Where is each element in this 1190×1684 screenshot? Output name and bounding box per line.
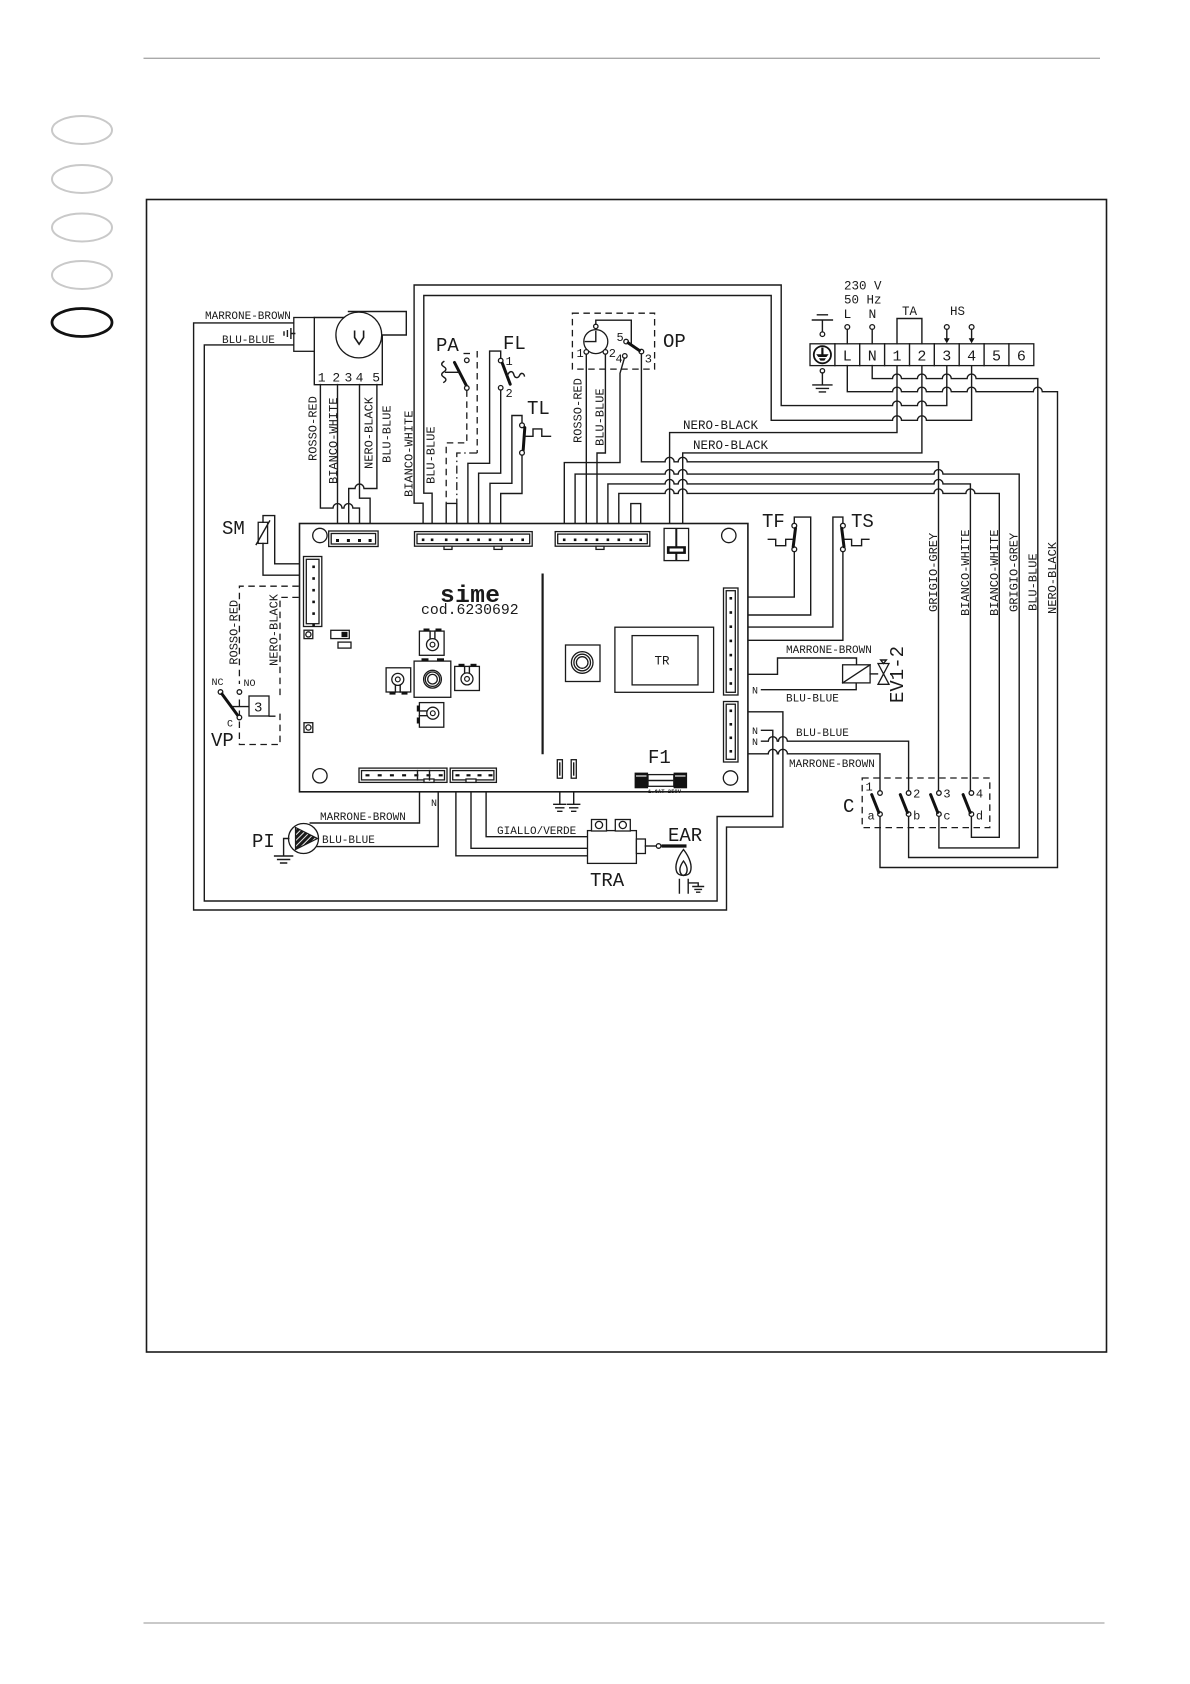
label NERO-BLACK 2 <box>693 439 769 453</box>
wire blu-blue PCB to pump <box>317 792 438 847</box>
svg-text:1.6AT 250V: 1.6AT 250V <box>648 788 682 795</box>
wire marrone-brown PCB to pump <box>310 792 419 823</box>
svg-text:MARRONE-BROWN: MARRONE-BROWN <box>789 759 875 771</box>
terminal N lead <box>869 307 877 344</box>
ground at fan motor <box>284 329 295 339</box>
svg-text:NERO-BLACK: NERO-BLACK <box>363 396 377 469</box>
TA bridge terminals 1-2 <box>897 305 922 344</box>
PCB pot bottom <box>417 703 444 728</box>
svg-text:L: L <box>843 349 852 366</box>
wire fan pin5 blu-blue <box>349 385 377 524</box>
svg-text:HS: HS <box>950 305 965 319</box>
svg-text:N: N <box>752 727 758 738</box>
wire N blu-blue to EV coil <box>752 683 856 698</box>
label GIALLO/VERDE <box>497 826 577 838</box>
svg-text:NC: NC <box>212 678 224 689</box>
svg-text:NERO-BLACK: NERO-BLACK <box>268 593 282 666</box>
PCB connector CN3 <box>555 532 650 550</box>
svg-text:BIANCO-WHITE: BIANCO-WHITE <box>327 398 341 484</box>
transformer TRA <box>588 820 646 893</box>
svg-text:1: 1 <box>506 355 513 369</box>
PCB relay/jumper component <box>664 528 689 560</box>
PCB pot center <box>414 658 451 697</box>
programmer OP dashed box <box>572 313 654 369</box>
wire bianco-white PCB to connector C4 <box>608 479 971 790</box>
svg-text:BLU-BLUE: BLU-BLUE <box>222 335 275 347</box>
fuse F1 <box>635 747 688 795</box>
wire marrone-brown fan supply loop <box>194 323 783 910</box>
svg-text:MARRONE-BROWN: MARRONE-BROWN <box>320 812 406 824</box>
PCB small component LED <box>331 630 351 648</box>
step ellipse 5 (active) <box>52 309 112 337</box>
wire TF bottom to PCB <box>748 552 794 597</box>
svg-text:BLU-BLUE: BLU-BLUE <box>786 694 839 706</box>
svg-text:BIANCO-WHITE: BIANCO-WHITE <box>988 530 1002 616</box>
svg-text:C: C <box>843 796 854 818</box>
wire PCB to TRA 2 <box>471 792 588 849</box>
svg-text:GRIGIO-GREY: GRIGIO-GREY <box>1008 533 1022 612</box>
svg-text:GRIGIO-GREY: GRIGIO-GREY <box>927 533 941 612</box>
PCB round trimmer <box>566 645 601 682</box>
svg-text:N: N <box>868 349 877 366</box>
top rule <box>144 57 1101 59</box>
svg-text:d: d <box>976 810 983 824</box>
connector C contact 3-c <box>931 788 951 824</box>
svg-text:3: 3 <box>344 371 352 386</box>
svg-text:N: N <box>752 738 758 749</box>
label BLU-BLUE (pump) <box>322 835 375 847</box>
label BLU-BLUE (fan wire) <box>380 405 394 463</box>
svg-text:NERO-BLACK: NERO-BLACK <box>1046 541 1060 614</box>
wire blu-blue N to connector C2 <box>762 737 909 791</box>
PCB divider line <box>541 574 543 755</box>
switch TS <box>841 511 874 552</box>
wire OP pin3 to connector C3 grigio-grey <box>641 354 938 791</box>
label BLU-BLUE (EV) <box>786 694 839 706</box>
wire SM bottom to PCB <box>263 543 300 575</box>
electrode EAR <box>645 825 702 848</box>
svg-text:ROSSO-RED: ROSSO-RED <box>572 378 586 443</box>
step ellipse 4 <box>52 261 112 289</box>
svg-text:3: 3 <box>942 349 951 366</box>
svg-text:2: 2 <box>913 788 920 802</box>
svg-text:EAR: EAR <box>668 825 702 847</box>
svg-text:N: N <box>431 799 437 810</box>
wire OP pin1 rosso-red to PCB <box>585 354 587 523</box>
PCB board sime <box>300 524 748 792</box>
wire OP pin2 blu-blue to PCB <box>597 354 605 523</box>
svg-text:4: 4 <box>976 788 983 802</box>
ground at flame <box>688 883 703 892</box>
svg-text:2: 2 <box>917 349 926 366</box>
svg-text:N: N <box>869 307 877 322</box>
ground above terminal block <box>812 315 832 337</box>
label BIANCO-WHITE (fan wire) <box>327 398 341 484</box>
svg-text:BIANCO-WHITE: BIANCO-WHITE <box>959 530 973 616</box>
label EV1-2 <box>887 646 909 703</box>
fan V <box>314 312 406 386</box>
svg-text:MARRONE-BROWN: MARRONE-BROWN <box>786 645 872 657</box>
svg-text:OP: OP <box>663 331 686 353</box>
svg-text:230 V: 230 V <box>844 280 882 294</box>
label 230 V 50 Hz <box>844 280 882 308</box>
wire marrone-brown PCB to connector C1 <box>748 749 880 791</box>
wire PCB to TRA 1 <box>456 792 588 856</box>
flame symbol <box>676 850 691 894</box>
label BIANCO-WHITE (bus) <box>403 411 417 497</box>
terminal L lead <box>844 307 852 344</box>
PCB left connector <box>304 557 322 627</box>
svg-text:NERO-BLACK: NERO-BLACK <box>693 439 769 453</box>
step ellipse 3 <box>52 214 112 242</box>
svg-text:TS: TS <box>851 511 874 533</box>
svg-text:2: 2 <box>332 371 340 386</box>
wire PA dashed to PCB <box>446 390 467 503</box>
wire PA dashed capillary <box>457 351 477 503</box>
PCB right connector upper <box>724 588 739 695</box>
switch TL <box>520 398 551 455</box>
step ellipse 1 <box>52 116 112 144</box>
wire TS bottom to PCB <box>748 552 843 641</box>
PCB right connector lower <box>724 702 739 763</box>
PCB transformer TR <box>615 627 714 692</box>
solenoid coil EV1-2 <box>843 660 889 684</box>
svg-text:PA: PA <box>436 335 459 357</box>
svg-text:ROSSO-RED: ROSSO-RED <box>228 600 242 665</box>
svg-text:GIALLO/VERDE: GIALLO/VERDE <box>497 826 577 838</box>
wire PA pcb stub <box>446 503 457 523</box>
wire blu-blue PCB N to connector C2 <box>752 727 758 738</box>
svg-text:VP: VP <box>211 730 234 752</box>
ground at pump <box>275 839 293 864</box>
connector C label <box>843 796 854 818</box>
svg-text:TL: TL <box>527 398 550 420</box>
label NERO-BLACK 1 <box>683 419 759 433</box>
wire PCB jumper stub conn3 <box>631 504 641 524</box>
svg-text:TF: TF <box>762 511 785 533</box>
svg-text:a: a <box>868 810 875 824</box>
label NERO-BLACK (VP) <box>268 593 282 666</box>
svg-text:5: 5 <box>992 349 1001 366</box>
wire nero-black terminal1 to PCB relay <box>670 366 897 524</box>
label N stub2 <box>752 738 758 749</box>
wire blu-blue fan neutral loop <box>204 345 773 901</box>
wire bianco-white bus to terminal 3 <box>414 285 947 524</box>
label MARRONE-BROWN (EV) <box>786 645 872 657</box>
connector C contact 2-b <box>900 788 920 824</box>
wire fan pin4 nero-black <box>360 385 371 524</box>
svg-text:b: b <box>913 810 920 824</box>
wire OP motor top <box>596 320 632 343</box>
svg-text:TRA: TRA <box>590 870 625 892</box>
label ROSSO-RED (VP) <box>228 600 242 665</box>
connector 3 box at VP <box>233 696 275 717</box>
label NERO-BLACK (right riser) <box>1046 541 1060 614</box>
sensor SM <box>222 518 270 545</box>
PCB pot left <box>386 668 411 695</box>
svg-text:3: 3 <box>943 788 950 802</box>
wire blu-blue bus to terminal 4 <box>424 296 972 524</box>
svg-text:F1: F1 <box>648 747 671 769</box>
PCB bottom connector CN5 <box>450 768 496 782</box>
svg-text:BLU-BLUE: BLU-BLUE <box>1026 553 1040 611</box>
wire nero-black terminal2 to PCB relay <box>683 366 922 524</box>
PCB mounting holes <box>313 528 738 785</box>
diagram frame <box>147 200 1107 1353</box>
wire TL top contact to PCB <box>490 416 522 524</box>
svg-text:BLU-BLUE: BLU-BLUE <box>380 405 394 463</box>
label BLU-BLUE (fan) <box>222 335 275 347</box>
svg-text:50 Hz: 50 Hz <box>844 294 882 308</box>
svg-text:C: C <box>227 720 233 731</box>
svg-text:L: L <box>844 307 852 322</box>
label ROSSO-RED (OP) <box>572 378 586 443</box>
wire fan pin2 bianco-white <box>337 385 339 524</box>
ground below terminal block <box>813 369 832 392</box>
programmer OP <box>577 324 686 366</box>
switch TF <box>762 511 797 552</box>
label GRIGIO-GREY (right riser) <box>1008 533 1022 612</box>
PCB pin headers <box>557 760 576 779</box>
svg-text:PI: PI <box>252 831 275 853</box>
svg-text:TA: TA <box>902 305 918 319</box>
svg-text:5: 5 <box>372 371 380 386</box>
PCB connector CN1 <box>329 531 378 547</box>
wire FL contact2 to PCB <box>479 390 501 523</box>
svg-text:TR: TR <box>655 655 671 669</box>
wire fan pin1 rosso-red <box>320 385 359 524</box>
svg-text:N: N <box>752 687 758 698</box>
terminal block earth symbol <box>814 346 831 363</box>
label BLU-BLUE (bus) <box>425 426 439 484</box>
label BLU-BLUE (right riser) <box>1026 553 1040 611</box>
label MARRONE-BROWN (pump) <box>320 812 406 824</box>
PCB earth pins <box>554 792 580 812</box>
label GRIGIO-GREY (right riser) <box>927 533 941 612</box>
label BIANCO-WHITE (right riser) <box>988 530 1002 616</box>
connector C contact 1-a <box>866 781 883 824</box>
wire L nero-black to connector Ca <box>847 366 1057 868</box>
PCB small pad A <box>304 630 313 638</box>
svg-text:BLU-BLUE: BLU-BLUE <box>425 426 439 484</box>
PCB pot top <box>419 629 444 656</box>
switch FL <box>498 333 525 401</box>
svg-text:NERO-BLACK: NERO-BLACK <box>683 419 759 433</box>
svg-text:4: 4 <box>356 371 364 386</box>
label MARRONE-BROWN (fan) <box>205 311 291 323</box>
switch PA <box>436 335 471 390</box>
switch VP contacts <box>211 678 256 752</box>
label NERO-BLACK (fan wire) <box>363 396 377 469</box>
svg-text:SM: SM <box>222 518 245 540</box>
svg-text:4: 4 <box>967 349 976 366</box>
wire FL contact1 to PCB <box>468 351 501 523</box>
svg-text:ROSSO-RED: ROSSO-RED <box>306 396 320 461</box>
svg-text:3: 3 <box>645 353 652 367</box>
svg-text:2: 2 <box>506 387 513 401</box>
svg-text:1: 1 <box>892 349 901 366</box>
label ROSSO-RED (fan wire) <box>306 396 320 461</box>
label BLU-BLUE (OP) <box>593 388 607 446</box>
svg-text:c: c <box>943 810 950 824</box>
terminal block 230V <box>810 344 1034 366</box>
svg-text:3: 3 <box>254 701 262 717</box>
svg-text:5: 5 <box>617 331 624 345</box>
svg-text:1: 1 <box>318 371 326 386</box>
wire giallo/verde PCB to TRA <box>486 792 587 837</box>
svg-text:MARRONE-BROWN: MARRONE-BROWN <box>205 311 291 323</box>
PCB pot right <box>455 664 480 691</box>
wire grigio-grey PCB to connector Cc <box>575 470 1019 848</box>
HS sensor leads terminals 3-4 <box>944 305 975 343</box>
svg-text:6: 6 <box>1017 349 1026 366</box>
svg-text:4: 4 <box>616 353 623 367</box>
wire TL bottom contact to PCB <box>501 455 522 523</box>
svg-text:EV1-2: EV1-2 <box>887 646 909 703</box>
bottom rule <box>144 1622 1105 1624</box>
label BLU-BLUE (to C) <box>796 728 849 740</box>
svg-text:1: 1 <box>577 347 584 361</box>
step ellipse 2 <box>52 165 112 193</box>
svg-text:1: 1 <box>866 781 873 795</box>
connector C dashed box <box>862 778 990 828</box>
wire TF top to PCB <box>748 517 811 615</box>
PCB code cod.6230692 <box>421 603 519 619</box>
svg-text:BLU-BLUE: BLU-BLUE <box>593 388 607 446</box>
wire bianco-white PCB to connector Cd <box>619 489 1000 837</box>
svg-text:NO: NO <box>244 679 256 690</box>
pump PI <box>252 824 319 854</box>
PCB bottom connector CN4 <box>359 768 447 782</box>
wire N blu-blue to connector Cb <box>872 366 1038 858</box>
PCB logo sime <box>440 583 500 610</box>
wire OP pin4 to PCB <box>564 358 624 523</box>
label MARRONE-BROWN (to C) <box>789 759 875 771</box>
svg-text:BLU-BLUE: BLU-BLUE <box>796 728 849 740</box>
svg-text:cod.6230692: cod.6230692 <box>421 603 519 619</box>
PCB small pad B <box>304 723 313 733</box>
fan motor terminal box <box>294 318 315 352</box>
wire marrone-brown PCB to EV coil <box>748 658 857 674</box>
wire TS top to PCB <box>748 517 843 627</box>
connector C contact 4-d <box>963 788 983 824</box>
svg-text:BIANCO-WHITE: BIANCO-WHITE <box>403 411 417 497</box>
svg-text:BLU-BLUE: BLU-BLUE <box>322 835 375 847</box>
wire SM top to PCB <box>263 516 300 564</box>
PCB connector CN2 <box>415 532 533 550</box>
svg-text:FL: FL <box>503 333 526 355</box>
label BIANCO-WHITE (right riser) <box>959 530 973 616</box>
switch VP dashed wiring <box>239 586 298 744</box>
